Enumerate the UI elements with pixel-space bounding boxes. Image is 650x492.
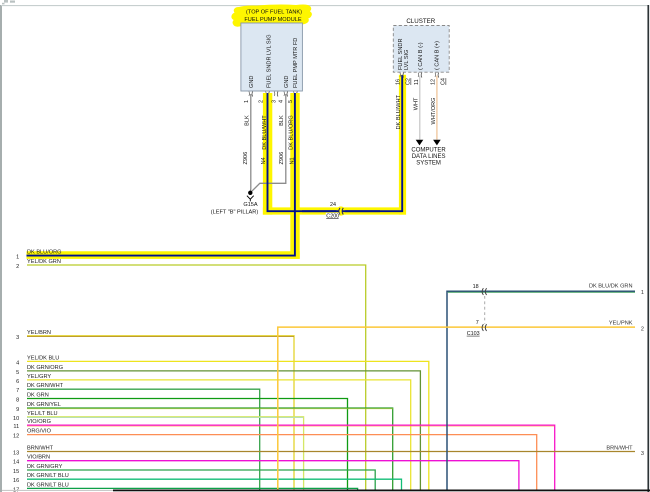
svg-text:BLK: BLK: [279, 115, 285, 126]
svg-text:3: 3: [641, 451, 644, 457]
row 3 brown accent: [27, 336, 294, 338]
svg-text:24: 24: [330, 202, 336, 208]
svg-text:YEL/LT BLU: YEL/LT BLU: [27, 411, 58, 417]
svg-text:2: 2: [259, 100, 265, 103]
svg-text:BLK: BLK: [244, 115, 250, 126]
wire VIO/BRN row 14: [27, 461, 519, 490]
wire DK GRN/ORG row 5: [27, 371, 420, 490]
svg-text:1: 1: [244, 100, 250, 103]
connector C103 dashed link: [484, 296, 486, 324]
connector name C200: [326, 213, 339, 219]
svg-text:WHT: WHT: [414, 97, 420, 110]
svg-text:SYSTEM: SYSTEM: [416, 160, 441, 166]
connector symbol on wire 7: [482, 324, 487, 331]
svg-text:BRN/WHT: BRN/WHT: [606, 446, 633, 452]
svg-text:N1: N1: [289, 157, 295, 164]
svg-text:COMPUTER: COMPUTER: [411, 148, 446, 154]
svg-text:13: 13: [13, 451, 19, 457]
cluster box: [393, 26, 449, 73]
svg-text:DK GRN/GRY: DK GRN/GRY: [27, 464, 63, 470]
top-left smudge: [2, 0, 15, 4]
svg-text:C4: C4: [441, 78, 447, 85]
wire BLK pin4: [252, 94, 286, 191]
bottom left gray line: [2, 489, 113, 491]
svg-text:1: 1: [16, 255, 19, 261]
svg-text:3: 3: [271, 100, 277, 103]
highlight band C200 horizontal: [263, 207, 406, 214]
svg-text:11: 11: [13, 424, 19, 430]
svg-text:LVL SIG: LVL SIG: [404, 49, 410, 70]
wire ORG/VIO row 12: [27, 435, 537, 490]
svg-text:GND: GND: [249, 76, 255, 88]
svg-text:18: 18: [473, 284, 479, 290]
wire DK GRN/LT BLU row 17: [27, 488, 358, 489]
svg-text:DK GRN/LT BLU: DK GRN/LT BLU: [27, 473, 69, 479]
svg-text:N4: N4: [261, 157, 267, 164]
svg-text:11: 11: [414, 79, 420, 85]
wire WHT/ORG cluster pin12: [436, 76, 438, 140]
svg-text:FUEL PUMP MODULE: FUEL PUMP MODULE: [244, 17, 301, 23]
svg-text:2: 2: [16, 264, 19, 270]
wire YEL/DK GRN row 2: [27, 265, 366, 490]
wire DK BLU/DK GRN: [447, 291, 635, 490]
wire YEL/PNK: [278, 327, 635, 490]
svg-text:DK BLU/ORG: DK BLU/ORG: [27, 250, 62, 256]
connector C200 symbol: [336, 206, 345, 215]
row 11 orange accent: [27, 425, 554, 427]
svg-text:(TOP OF FUEL TANK): (TOP OF FUEL TANK): [246, 10, 302, 16]
highlighter blob over module title: [231, 4, 311, 26]
highlight band pin2 vertical: [263, 93, 272, 215]
wire YEL/GRY row 6: [27, 380, 411, 490]
svg-text:4: 4: [279, 100, 285, 103]
svg-text:DK GRN: DK GRN: [27, 393, 49, 399]
svg-text:16: 16: [396, 79, 402, 85]
svg-text:ORG/VIO: ORG/VIO: [27, 429, 52, 435]
svg-text:DK BLU/ORG: DK BLU/ORG: [289, 115, 295, 150]
wire DK BLU/ORG pin5 down to row1: [27, 93, 295, 256]
svg-text:BRN/WHT: BRN/WHT: [27, 446, 54, 452]
svg-text:Z906: Z906: [243, 152, 249, 165]
svg-text:3: 3: [16, 335, 19, 341]
svg-text:GND: GND: [284, 76, 290, 88]
svg-text:FUEL PMP MTR FD: FUEL PMP MTR FD: [293, 38, 299, 88]
svg-text:FUEL SNDR LVL SIG: FUEL SNDR LVL SIG: [267, 34, 273, 88]
svg-text:DK BLU/DK GRN: DK BLU/DK GRN: [589, 284, 633, 290]
svg-text:YEL/GRY: YEL/GRY: [27, 374, 51, 380]
svg-text:6: 6: [16, 379, 19, 385]
module pin bumps: [249, 92, 297, 97]
svg-text:( CAN B (+): ( CAN B (+): [435, 41, 441, 70]
svg-text:14: 14: [13, 460, 19, 466]
wire BRN/WHT row 13: [27, 451, 635, 453]
wire DK GRN/WHT row 7: [27, 389, 260, 490]
svg-text:DK BLU/WHT: DK BLU/WHT: [262, 115, 268, 150]
svg-text:10: 10: [13, 416, 19, 422]
svg-text:(LEFT "B" PILLAR): (LEFT "B" PILLAR): [211, 210, 259, 216]
svg-text:DK GRN/LT BLU: DK GRN/LT BLU: [27, 482, 69, 488]
svg-text:DK BLU/WHT: DK BLU/WHT: [396, 94, 402, 129]
svg-text:DATA LINES: DATA LINES: [412, 154, 446, 160]
wire BLK pin1: [249, 94, 251, 191]
svg-text:VIO/ORG: VIO/ORG: [27, 419, 51, 425]
arrow to data lines (WHT): [416, 140, 424, 146]
svg-text:1: 1: [641, 290, 644, 296]
ground G15A symbol: [248, 191, 252, 195]
svg-text:YEL/DK BLU: YEL/DK BLU: [27, 355, 59, 361]
highlight band row1 horizontal: [27, 251, 300, 259]
svg-text:YEL/PNK: YEL/PNK: [609, 320, 633, 326]
svg-text:WHT/ORG: WHT/ORG: [431, 98, 437, 125]
wire DK GRN row 8: [27, 399, 348, 490]
svg-text:DK GRN/WHT: DK GRN/WHT: [27, 383, 64, 389]
svg-text:4: 4: [16, 360, 19, 366]
highlight band cluster16 vertical: [399, 75, 406, 215]
svg-text:5: 5: [16, 370, 19, 376]
wire YEL/LT BLU row 10: [27, 417, 304, 490]
svg-text:DK GRN/ORG: DK GRN/ORG: [27, 365, 63, 371]
wire DK GRN/LT BLU row 16: [27, 479, 402, 490]
svg-text:C103: C103: [467, 331, 480, 337]
svg-text:C2: C2: [406, 78, 412, 85]
svg-text:16: 16: [13, 478, 19, 484]
svg-text:YEL/BRN: YEL/BRN: [27, 330, 51, 336]
wire DK GRN/YEL row 9: [27, 408, 393, 490]
wire DK GRN/GRY row 15: [27, 470, 375, 490]
svg-text:15: 15: [13, 469, 19, 475]
cluster pin bumps: [400, 73, 439, 78]
svg-text:17: 17: [13, 487, 19, 492]
svg-text:CLUSTER: CLUSTER: [406, 18, 435, 25]
wire DK BLU/WHT pin2 to C200 to cluster: [268, 75, 403, 211]
svg-text:9: 9: [16, 407, 19, 413]
right page border: [647, 5, 649, 492]
connector symbol on wire 18: [482, 288, 487, 295]
wire VIO/ORG row 11: [27, 425, 555, 490]
svg-text:( CAN B (-): ( CAN B (-): [418, 42, 424, 70]
arrow to data lines (WHT/ORG): [433, 140, 441, 146]
svg-text:5: 5: [288, 100, 294, 103]
row 10 ltblue accent: [27, 417, 303, 419]
left page border: [0, 5, 2, 492]
svg-text:G15A: G15A: [243, 202, 258, 208]
svg-text:DK GRN/YEL: DK GRN/YEL: [27, 402, 61, 408]
svg-text:8: 8: [16, 398, 19, 404]
wire YEL/BRN row 3: [27, 336, 294, 490]
top page border: [1, 5, 649, 7]
svg-text:7: 7: [16, 388, 19, 394]
svg-text:12: 12: [13, 434, 19, 440]
svg-text:7: 7: [476, 320, 479, 326]
svg-text:VIO/BRN: VIO/BRN: [27, 455, 50, 461]
wire YEL/DK BLU row 4: [27, 361, 429, 489]
svg-text:12: 12: [431, 79, 437, 85]
svg-text:2: 2: [641, 326, 644, 332]
bottom black bus bar: [113, 490, 650, 492]
fuel pump module box: [241, 23, 303, 91]
highlight band pin5 vertical: [290, 93, 299, 259]
wire WHT cluster pin11: [419, 76, 421, 140]
row 9 yellow accent: [27, 408, 393, 410]
svg-text:YEL/DK GRN: YEL/DK GRN: [27, 259, 61, 265]
svg-text:Z906: Z906: [279, 152, 285, 165]
